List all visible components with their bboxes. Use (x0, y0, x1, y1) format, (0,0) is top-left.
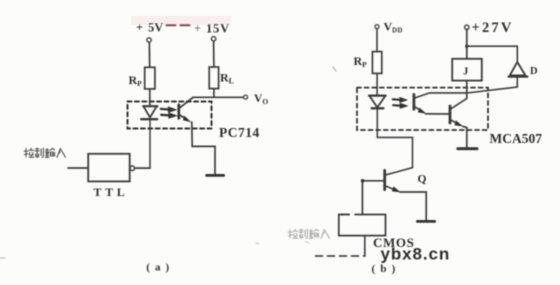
terminal VDD (375, 25, 379, 29)
emitter arrowhead T1 (MCA507) (418, 108, 427, 114)
svg-text:J: J (463, 67, 468, 78)
emitter arrowhead (PC714) (183, 116, 191, 123)
pink scan tint near +5V annotation (131, 16, 231, 25)
light arrows (PC714) (161, 107, 177, 119)
svg-text:PC714: PC714 (219, 125, 260, 140)
svg-text:MCA507: MCA507 (490, 131, 543, 146)
wire T2 emitter to ground (463, 126, 467, 147)
label 控制输入 (right, light gray) (288, 229, 329, 239)
wire Rp to LED anode (right) (376, 73, 378, 95)
faint scan dot above (a) (256, 243, 259, 244)
svg-text:TTL: TTL (94, 185, 129, 199)
wire Q emitter to ground (400, 192, 426, 220)
junction Q base corner (361, 179, 365, 183)
optocoupler dashed box PC714 (128, 102, 212, 129)
wire Q base to CMOS (362, 181, 384, 215)
svg-text:+15V: +15V (194, 22, 230, 36)
label 控制输入 (left, dark) (24, 148, 65, 158)
faint scan dash at left edge (0, 257, 5, 259)
relay J box (452, 59, 482, 81)
dashed control wire into CMOS (316, 255, 366, 257)
photodarlington transistor 1 (MCA507) (414, 93, 467, 112)
wire CMOS bottom stub (364, 236, 366, 256)
wire Rp to LED anode (149, 89, 151, 106)
terminal +5V (147, 38, 151, 42)
transistor Q (385, 168, 413, 191)
terminal Vo (244, 95, 248, 99)
diode D (freewheel) (509, 62, 528, 77)
wire diode to collector node (467, 78, 517, 93)
ground (Q emitter) (417, 220, 434, 223)
resistor Rp (left) (145, 67, 155, 89)
svg-text:D: D (530, 66, 538, 77)
junction +27V node (465, 45, 468, 48)
ground (left circuit) (207, 174, 224, 177)
TTL box (88, 154, 130, 182)
wire VDD to Rp (376, 29, 378, 52)
emitter arrowhead T2 (MCA507) (454, 120, 463, 126)
faint scan speck near CMOS wire (306, 242, 310, 244)
resistor RL (209, 67, 218, 89)
svg-text:(a): (a) (146, 262, 174, 274)
wire control input to TTL (68, 167, 88, 169)
photodarlington transistor 2 (MCA507) (450, 98, 467, 124)
wire RL to Vo node (213, 89, 215, 98)
LED of PC714 (141, 106, 157, 119)
faint scan speck near VDD (333, 67, 336, 71)
resistor Rp (right) (372, 52, 381, 74)
light arrows (MCA507) (393, 97, 408, 108)
svg-text:Q: Q (418, 174, 427, 186)
svg-text:(b): (b) (372, 263, 401, 275)
terminal +27V (465, 25, 469, 29)
wire LED cathode down to TTL output (149, 120, 151, 169)
wire +27V node to diode (467, 46, 518, 61)
red dashed annotation line (167, 24, 192, 26)
svg-text:+27V: +27V (472, 20, 514, 36)
wire LED cathode routed to Q collector (377, 109, 412, 168)
inverter bubble at TTL output (130, 166, 135, 171)
node Vo wire (collector to output) (193, 96, 244, 98)
wire relay to collector node (466, 81, 468, 99)
terminal +15V (211, 37, 215, 41)
LED of MCA507 (369, 96, 386, 109)
wire TTL bubble to LED cathode (135, 167, 150, 169)
phototransistor of PC714 (179, 98, 193, 120)
emitter arrowhead Q (392, 186, 401, 192)
wire emitter to ground (left) (192, 122, 215, 174)
wire +27V down to relay (466, 30, 468, 59)
svg-text:ybx8.cn: ybx8.cn (381, 245, 451, 264)
CMOS box (339, 215, 386, 236)
svg-text:+5V: +5V (136, 21, 163, 35)
wire +15V to RL (213, 42, 215, 67)
optocoupler dashed box MCA507 (357, 88, 488, 130)
wire +5V to Rp (148, 42, 150, 67)
ground (MCA507 emitter) (458, 147, 477, 150)
wire T1 emitter to T2 base (426, 113, 450, 115)
